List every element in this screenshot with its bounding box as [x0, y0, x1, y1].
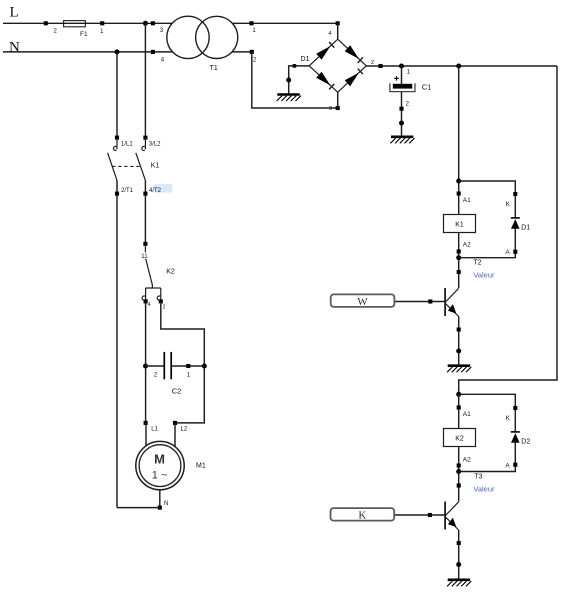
wire plus rail to K2 section — [459, 66, 557, 394]
svg-text:2: 2 — [154, 373, 158, 379]
svg-text:L1: L1 — [151, 427, 158, 433]
pin A2 of K1 — [457, 249, 461, 253]
wire K2 left throw down to motor L1 — [145, 301, 147, 423]
junction D2 diode branch top — [456, 392, 461, 397]
pin 11 of K2 contact — [143, 242, 147, 246]
wire diode D1 anode return — [459, 229, 516, 258]
svg-text:K1: K1 — [455, 222, 464, 229]
wire W to T2 base — [394, 301, 445, 303]
svg-text:D1: D1 — [301, 56, 310, 63]
K1 contact coupling dashed link — [112, 165, 140, 167]
pin of T2 emitter net — [457, 327, 461, 331]
svg-text:2: 2 — [253, 58, 257, 64]
pin collector of T3 — [457, 483, 461, 487]
pin base of T2 — [428, 299, 432, 303]
wire K1 right contact stub — [144, 138, 146, 150]
ground pin dot (T2) — [456, 349, 461, 354]
bridge edge left-top — [309, 39, 338, 66]
svg-text:K2: K2 — [455, 436, 464, 443]
pin 2 of bridge — [378, 64, 382, 68]
bridge edge bottom-right — [338, 66, 367, 92]
svg-text:T2: T2 — [473, 260, 481, 267]
K1 right contact fixed hook — [142, 146, 145, 150]
bridge diode top-right — [345, 45, 359, 59]
svg-text:1: 1 — [187, 373, 191, 379]
pin 2 of T1 — [250, 50, 254, 54]
ground pin dot (T3) — [456, 562, 461, 567]
pin K of diode D2 — [513, 406, 517, 410]
pin 4/T2 of K1 contact — [143, 192, 147, 196]
junction C2 left — [143, 364, 148, 369]
svg-text:1: 1 — [100, 29, 104, 35]
svg-text:K: K — [506, 415, 511, 422]
svg-text:D1: D1 — [521, 224, 530, 231]
svg-text:F1: F1 — [80, 31, 88, 38]
K2 left throw hook — [142, 296, 145, 300]
wire C1 top lead — [401, 66, 403, 84]
svg-text:K1: K1 — [151, 163, 160, 170]
svg-text:2: 2 — [406, 101, 410, 107]
svg-text:W: W — [357, 296, 368, 308]
pin A of diode D2 — [513, 463, 517, 467]
fuse F1 — [64, 21, 86, 27]
pin 3 of T1 — [151, 21, 155, 25]
pin A1 of K2 — [457, 405, 461, 409]
wire K2 blade bracket left — [146, 285, 153, 288]
svg-text:M: M — [154, 451, 165, 466]
bridge edge left-bottom — [309, 66, 338, 92]
bridge diode left-bottom cathode bar — [329, 84, 334, 90]
junction C2 right — [202, 364, 207, 369]
ground (C1) — [390, 137, 414, 144]
bridge edge top-right — [338, 39, 367, 66]
wire diode D2 anode return — [459, 443, 516, 472]
ground pin dot (C1) — [399, 121, 404, 126]
svg-text:A2: A2 — [463, 241, 471, 248]
pin A of diode D1 — [513, 250, 517, 254]
svg-text:4/T2: 4/T2 — [149, 188, 162, 194]
pin base of T3 — [428, 513, 432, 517]
svg-text:1: 1 — [252, 28, 256, 34]
pin of T3 emitter net — [457, 541, 461, 545]
T3 collector stroke — [446, 502, 459, 516]
diode D1 — [511, 217, 520, 219]
svg-text:2/T1: 2/T1 — [121, 188, 134, 194]
diode D2 — [511, 431, 520, 433]
transformer T1 primary winding — [167, 16, 209, 58]
wire K1 left contact stub — [116, 138, 118, 150]
motor M1 — [136, 441, 184, 489]
pin 4 of T1 — [151, 50, 155, 54]
transistor T3 — [444, 502, 446, 530]
wire to K2 coil — [458, 394, 460, 428]
svg-text:4: 4 — [148, 302, 151, 308]
K1 right contact blade — [136, 153, 146, 181]
T2 emitter stroke — [446, 304, 459, 317]
wire K2 blade bracket right — [152, 287, 160, 289]
svg-text:Valeur: Valeur — [473, 485, 495, 494]
wire bridge top lead — [337, 23, 339, 39]
svg-text:A1: A1 — [463, 197, 471, 204]
wire K2 right throw to motor L2 — [161, 301, 205, 423]
highlight behind 4/T2 label — [154, 184, 172, 193]
svg-text:D2: D2 — [521, 438, 530, 445]
pin A1 of K1 — [457, 191, 461, 195]
wire L branch down to K1 contact — [144, 23, 146, 137]
wire K2 coil to T3 collector — [458, 447, 460, 502]
wire bridge minus to ground — [289, 66, 310, 94]
junction L branch — [143, 21, 148, 26]
pin 1 of bridge — [293, 64, 297, 68]
wire 2/T1 down to motor N side — [116, 180, 118, 507]
svg-text:3: 3 — [160, 28, 164, 34]
wire C2 right lead — [171, 365, 204, 367]
wire C2 left lead — [146, 365, 165, 367]
wire K2 right throw stub — [160, 288, 162, 301]
junction C1 tap — [399, 64, 404, 69]
wire T3 emitter to ground — [458, 530, 460, 579]
svg-text:4: 4 — [161, 57, 165, 63]
bridge diode left-top cathode bar — [329, 42, 334, 48]
pin N of motor — [158, 506, 162, 510]
svg-text:L2: L2 — [181, 427, 188, 433]
relay coil K1 — [444, 215, 476, 233]
ground (T2 emitter) — [447, 366, 471, 373]
T3 emitter stroke — [446, 517, 459, 530]
wire N branch down to K1 contact — [116, 52, 118, 138]
node bridge AC bottom — [336, 106, 340, 110]
svg-text:N: N — [9, 40, 20, 56]
ground (T3 emitter) — [447, 580, 471, 587]
wire K to T3 base — [394, 514, 445, 516]
wire K2 left throw stub — [145, 288, 147, 301]
pin 1 of T1 — [249, 21, 253, 25]
pin 1 of C2 — [186, 364, 190, 368]
pin 1/L1 of K1 contact — [115, 136, 119, 140]
pin A2 of K2 — [457, 463, 461, 467]
pin 14 of K2 contact — [144, 299, 148, 303]
wire T1 pin2 to bridge bottom — [252, 52, 338, 108]
svg-text:3/L2: 3/L2 — [149, 142, 161, 148]
ground (bridge minus) — [277, 95, 301, 102]
transformer T1 secondary winding — [196, 16, 238, 58]
wire DC plus rail — [366, 65, 557, 67]
svg-text:A: A — [505, 462, 510, 469]
junction N branch — [115, 49, 120, 54]
svg-text:M1: M1 — [196, 463, 206, 470]
ground pin dot (bridge) — [286, 78, 291, 83]
svg-text:A: A — [505, 249, 510, 256]
svg-text:11: 11 — [141, 254, 148, 260]
K2 contact blade — [146, 259, 153, 285]
T3 emitter arrow — [448, 518, 456, 527]
wire motor L1 lead — [145, 423, 147, 446]
wire motor L2 lead — [174, 423, 176, 447]
wire K2 contact common stub — [144, 244, 146, 253]
svg-text:K2: K2 — [166, 269, 175, 276]
wire transformer secondary top — [232, 22, 337, 24]
svg-text:L: L — [10, 5, 19, 21]
pin 2 of C1 — [399, 107, 403, 111]
svg-text:A1: A1 — [463, 411, 471, 418]
relay coil K2 — [444, 429, 476, 447]
wire plus to K1 coil — [458, 66, 460, 215]
input label box K — [331, 508, 395, 520]
pin K of diode D1 — [513, 192, 517, 196]
svg-text:2: 2 — [54, 29, 58, 35]
svg-text:4: 4 — [328, 31, 332, 37]
pin 1 of F1 — [100, 21, 104, 25]
svg-text:Valeur: Valeur — [473, 271, 495, 280]
wire motor N return — [117, 507, 160, 509]
svg-text:C1: C1 — [422, 83, 432, 92]
bridge diode top-right cathode bar — [358, 57, 363, 63]
input label box W — [331, 294, 395, 307]
pin 12 of K2 contact — [159, 299, 163, 303]
wire bridge bottom lead — [337, 92, 339, 108]
wire to diode D2 cathode — [459, 394, 516, 432]
svg-text:T1: T1 — [210, 65, 218, 72]
pin collector of T2 — [457, 270, 461, 274]
wire to diode D1 cathode — [459, 181, 516, 218]
svg-text:2: 2 — [163, 304, 166, 310]
pin 3/L2 of K1 contact — [143, 136, 147, 140]
svg-text:T3: T3 — [474, 473, 482, 480]
svg-text:2: 2 — [371, 60, 374, 66]
pin 2 of F1 — [44, 21, 48, 25]
node bridge AC top — [336, 21, 340, 25]
svg-text:K: K — [358, 510, 366, 522]
junction D1 diode branch top — [456, 179, 461, 184]
svg-text:A2: A2 — [463, 457, 471, 464]
K1 left contact fixed hook — [113, 146, 116, 150]
wire motor N lead — [159, 490, 161, 508]
pin 2/T1 of K1 contact — [115, 192, 119, 196]
bridge diode bottom-right cathode bar — [358, 69, 363, 75]
capacitor C1 polarized — [394, 77, 398, 79]
svg-text:K: K — [506, 201, 511, 208]
bridge diode left-bottom — [316, 72, 330, 86]
svg-text:3: 3 — [329, 106, 332, 112]
K1 left contact blade — [108, 153, 117, 181]
svg-text:1 ~: 1 ~ — [152, 470, 168, 482]
wire 4/T2 down to K2 contact — [144, 180, 146, 243]
junction D1 diode branch bottom — [456, 255, 461, 260]
bridge diode bottom-right — [345, 73, 359, 87]
T2 emitter arrow — [448, 304, 456, 313]
svg-text:N: N — [164, 501, 168, 507]
wire C1 bottom lead — [401, 92, 403, 136]
transistor T2 — [444, 288, 446, 316]
wire T2 emitter to ground — [458, 317, 460, 365]
wire transformer secondary bottom — [232, 51, 251, 53]
junction K1 branch — [456, 64, 461, 69]
svg-text:C2: C2 — [172, 387, 182, 396]
pin L1 of motor — [144, 421, 148, 425]
wire N rail — [3, 51, 173, 53]
bridge diode left-top — [316, 46, 330, 60]
wire L rail — [3, 22, 172, 24]
wire K1 coil to T2 collector — [458, 233, 460, 289]
svg-text:1/L1: 1/L1 — [121, 142, 133, 148]
svg-text:1: 1 — [407, 70, 411, 76]
T2 collector stroke — [446, 288, 459, 302]
K2 right throw hook — [157, 296, 160, 300]
pin L2 of motor — [173, 421, 177, 425]
junction D2 diode branch bottom — [456, 469, 461, 474]
